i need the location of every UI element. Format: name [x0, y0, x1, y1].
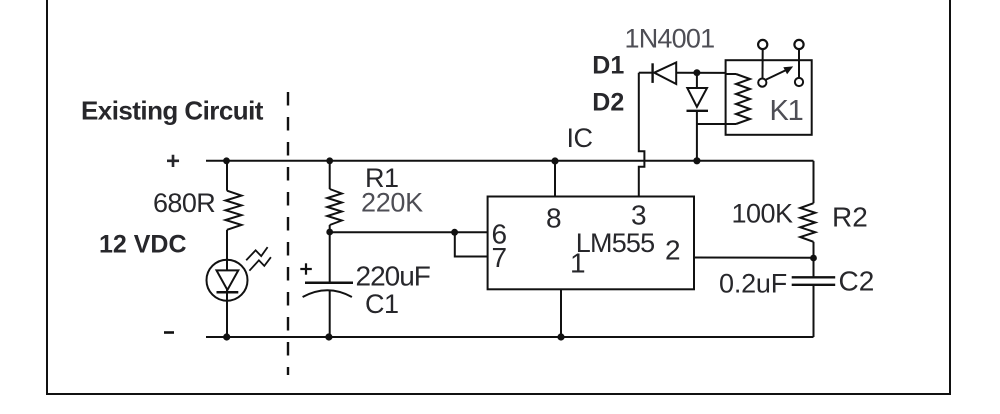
svg-text:Existing Circuit: Existing Circuit — [81, 96, 264, 126]
svg-text:C1: C1 — [365, 289, 399, 319]
svg-text:220K: 220K — [361, 188, 423, 218]
svg-text:LM555: LM555 — [576, 228, 655, 258]
svg-text:2: 2 — [665, 235, 681, 266]
svg-text:680R: 680R — [153, 188, 215, 218]
svg-text:IC: IC — [567, 123, 593, 153]
svg-text:D2: D2 — [592, 88, 624, 116]
svg-text:1N4001: 1N4001 — [625, 24, 715, 54]
svg-text:3: 3 — [631, 200, 647, 231]
svg-text:220uF: 220uF — [356, 261, 430, 292]
svg-text:R2: R2 — [832, 202, 868, 233]
svg-text:12 VDC: 12 VDC — [99, 231, 187, 259]
svg-text:100K: 100K — [732, 199, 794, 229]
svg-text:+: + — [166, 148, 180, 175]
svg-text:D1: D1 — [592, 51, 624, 79]
svg-text:C2: C2 — [839, 266, 875, 297]
svg-text:0.2uF: 0.2uF — [719, 269, 787, 299]
svg-text:8: 8 — [546, 203, 562, 234]
svg-text:7: 7 — [492, 242, 508, 273]
svg-text:K1: K1 — [770, 95, 803, 127]
